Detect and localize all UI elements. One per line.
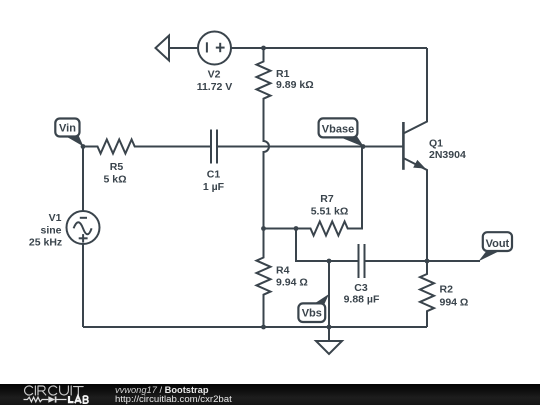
svg-text:R5: R5 — [110, 161, 124, 173]
svg-text:9.94 Ω: 9.94 Ω — [276, 277, 308, 289]
svg-text:Vout: Vout — [486, 238, 510, 250]
svg-text:R7: R7 — [320, 193, 334, 205]
svg-text:994 Ω: 994 Ω — [440, 296, 469, 308]
svg-text:V2: V2 — [208, 69, 221, 81]
svg-text:R4: R4 — [276, 264, 290, 276]
svg-text:C3: C3 — [354, 282, 368, 294]
svg-text:R2: R2 — [440, 284, 454, 296]
svg-text:9.89 kΩ: 9.89 kΩ — [276, 79, 314, 91]
svg-text:9.88 µF: 9.88 µF — [344, 293, 380, 305]
svg-text:5 kΩ: 5 kΩ — [103, 174, 126, 186]
svg-text:1 µF: 1 µF — [203, 181, 225, 193]
svg-text:Vbase: Vbase — [322, 123, 354, 135]
svg-text:Vbs: Vbs — [302, 308, 322, 320]
svg-text:11.72 V: 11.72 V — [197, 81, 233, 93]
svg-text:C1: C1 — [207, 168, 221, 180]
svg-text:Vin: Vin — [59, 122, 76, 134]
svg-text:sine: sine — [40, 224, 61, 236]
svg-text:R1: R1 — [276, 68, 290, 80]
svg-text:5.51 kΩ: 5.51 kΩ — [311, 205, 349, 217]
svg-text:2N3904: 2N3904 — [429, 149, 466, 161]
svg-text:25 kHz: 25 kHz — [29, 237, 62, 249]
svg-text:Q1: Q1 — [429, 137, 443, 149]
svg-text:V1: V1 — [49, 212, 62, 224]
